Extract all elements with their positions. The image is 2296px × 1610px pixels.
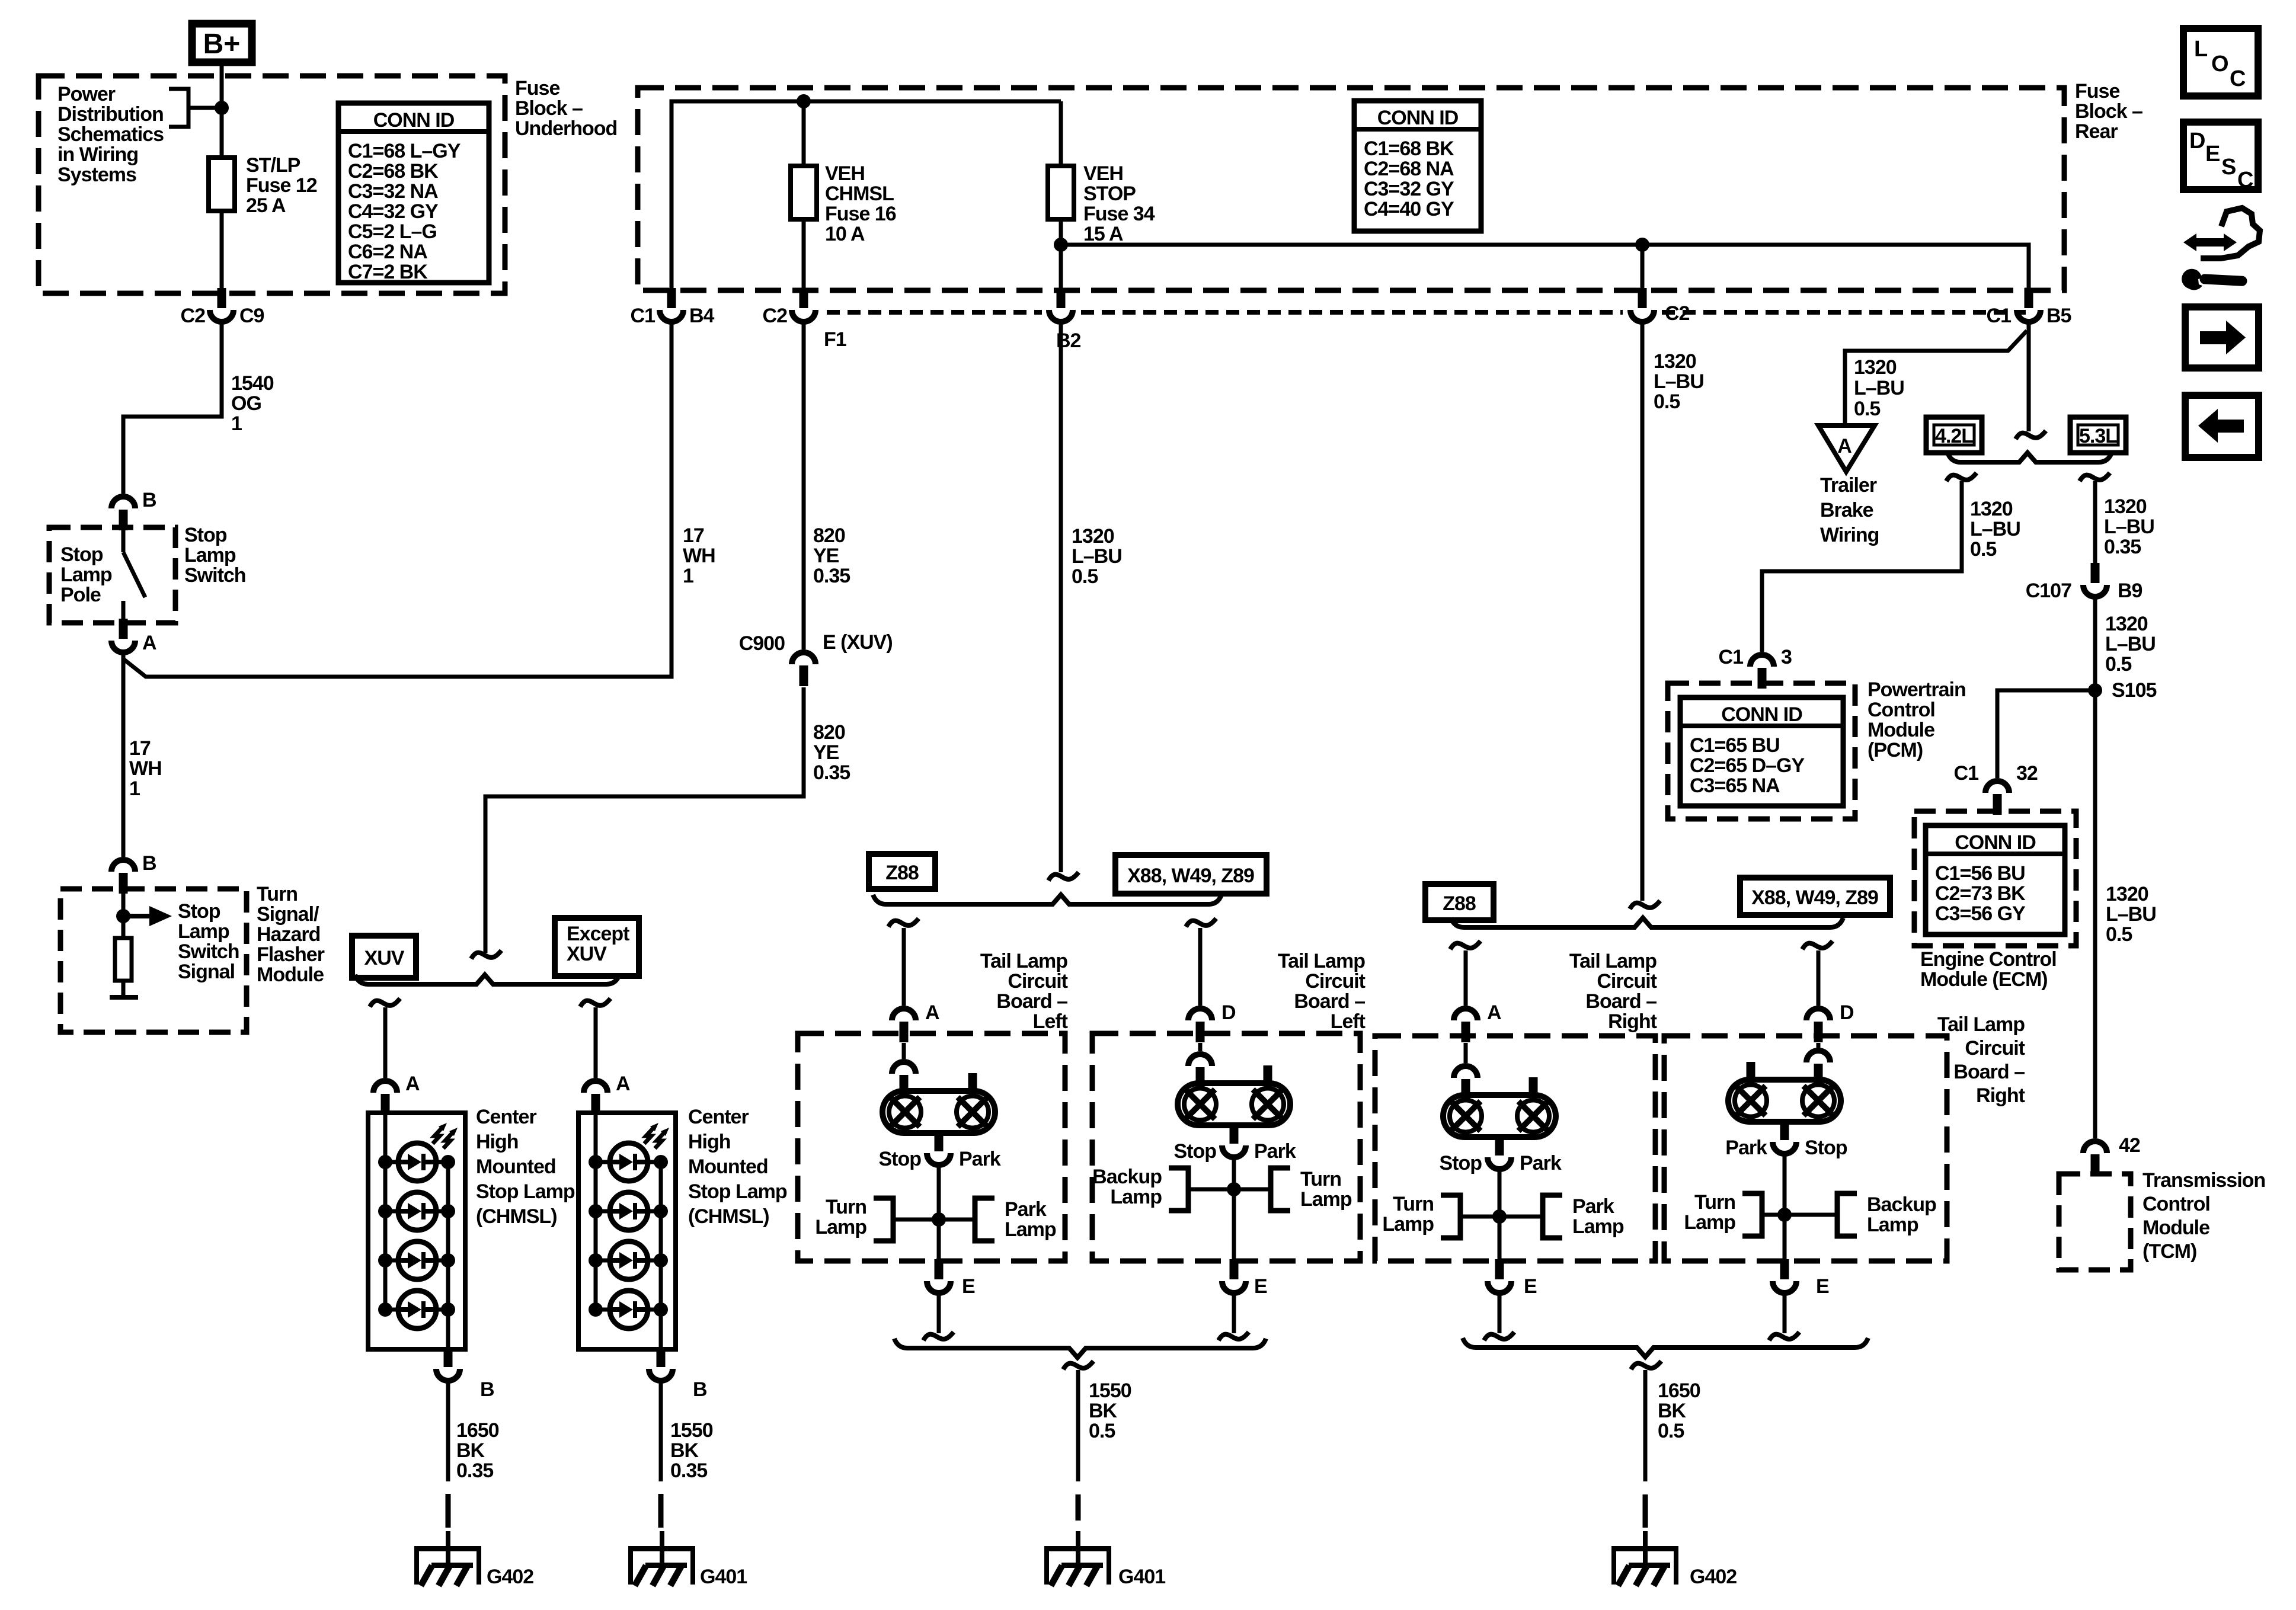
LED CHMSL except-XUV LED 2 bbox=[610, 1192, 648, 1230]
svg-text:C1: C1 bbox=[631, 305, 655, 327]
svg-text:C1=68 L–GY: C1=68 L–GY bbox=[348, 140, 461, 162]
svg-text:0.5: 0.5 bbox=[1970, 538, 1996, 561]
component box: Tail Lamp Circuit Board - Left (stop/park/turn) bbox=[798, 1033, 1065, 1261]
junction STOP fuse output node bbox=[1054, 238, 1068, 252]
connector tail lamp 2 stop/park pin bbox=[1230, 1124, 1239, 1144]
bulb tail lamp 2 unfed pin bbox=[1264, 1065, 1272, 1083]
option box: X88, W49, Z89 (right) bbox=[1740, 878, 1890, 915]
junction CHMSL XUV right bus node 4 bbox=[441, 1302, 455, 1317]
svg-text:Stop Lamp: Stop Lamp bbox=[688, 1180, 787, 1203]
bulb tail lamp 2 body bbox=[1178, 1083, 1290, 1125]
component box: Turn Signal/Hazard Flasher Module bbox=[60, 889, 247, 1032]
bulb tail lamp 2 left filament circle bbox=[1184, 1089, 1216, 1121]
connector C2/F1 pin bbox=[800, 288, 808, 308]
svg-text:A: A bbox=[925, 1001, 939, 1024]
connector ECM C1 pin 32 dome bbox=[1985, 781, 2009, 793]
svg-text:Stop: Stop bbox=[60, 543, 103, 566]
wire stop lamp feed bus to B5 bbox=[1061, 245, 2029, 288]
svg-text:O: O bbox=[2211, 52, 2229, 76]
bulb tail lamp 3 unfed pin bbox=[1529, 1077, 1538, 1095]
CONN ID ECM table bbox=[1926, 825, 2065, 934]
junction splice S105 bbox=[2088, 683, 2102, 697]
svg-text:Stop: Stop bbox=[184, 524, 227, 546]
svg-text:XUV: XUV bbox=[364, 947, 405, 969]
connector tail lamp 2 D pin bbox=[1196, 1022, 1205, 1042]
connector CHMSL XUV A pin bbox=[381, 1094, 390, 1115]
junction C2 rear tap bbox=[1635, 238, 1649, 252]
wire CHMSL except-XUV right bus bbox=[659, 1162, 663, 1349]
component box: Tail Lamp Circuit Board - Right (stop/park/turn) bbox=[1375, 1036, 1655, 1261]
svg-text:(CHMSL): (CHMSL) bbox=[688, 1205, 769, 1228]
wire-option squiggle tail lamp 2 ground option bbox=[1219, 1332, 1249, 1340]
svg-text:Module: Module bbox=[2142, 1217, 2209, 1239]
LED CHMSL except-XUV LED 4 bbox=[610, 1291, 648, 1329]
connector CHMSL except-XUV B pin bbox=[657, 1347, 666, 1367]
svg-text:C1=56 BU: C1=56 BU bbox=[1935, 862, 2025, 885]
wire-option squiggle X88 branch (right) bbox=[1802, 941, 1833, 949]
wire CHMSL XUV LED 1 cathode lead bbox=[436, 1160, 448, 1164]
wire-option squiggle left ground merge out bbox=[1063, 1361, 1093, 1369]
svg-text:A: A bbox=[1837, 435, 1851, 457]
svg-text:Switch: Switch bbox=[178, 940, 239, 963]
connector CHMSL except-XUV A dome bbox=[584, 1081, 607, 1093]
connector C2/F1 cup bbox=[792, 310, 816, 322]
connector tail lamp 2 D dome bbox=[1188, 1009, 1212, 1020]
svg-text:CHMSL: CHMSL bbox=[825, 183, 894, 205]
svg-text:42: 42 bbox=[2119, 1134, 2140, 1157]
svg-text:B: B bbox=[480, 1378, 494, 1401]
svg-text:Switch: Switch bbox=[184, 564, 246, 587]
lamp-feed bracket tail lamp 1 right (Park Lamp) bbox=[975, 1198, 994, 1241]
wire-option squiggle tail lamp 4 ground option bbox=[1769, 1332, 1799, 1340]
svg-text:Backup: Backup bbox=[1867, 1193, 1936, 1216]
connector tail lamp 3 E cup bbox=[1488, 1281, 1511, 1293]
wire bus to VEH STOP fuse bbox=[1059, 101, 1063, 292]
svg-text:Brake: Brake bbox=[1820, 499, 1873, 521]
CONN ID underhood table bbox=[338, 103, 489, 283]
connector tail lamp 4 stop/park pin bbox=[1780, 1120, 1789, 1140]
wire tail lamp 3 cross lead bbox=[1460, 1215, 1543, 1219]
svg-text:E (XUV): E (XUV) bbox=[823, 631, 893, 654]
svg-text:B5: B5 bbox=[2046, 305, 2071, 327]
LED CHMSL XUV LED 3 bbox=[398, 1241, 436, 1279]
brace right board ground merge bbox=[1463, 1338, 1868, 1357]
wire dash (right ground harness) bbox=[1643, 1494, 1648, 1528]
svg-text:C: C bbox=[2230, 66, 2246, 91]
wire CHMSL except-XUV left bus bbox=[594, 1103, 598, 1310]
svg-text:E: E bbox=[1254, 1275, 1267, 1298]
connector C900 dome bbox=[792, 652, 816, 664]
svg-text:Fuse 12: Fuse 12 bbox=[246, 174, 317, 197]
LED CHMSL XUV LED 2 bbox=[398, 1192, 436, 1230]
junction CHMSL except-XUV right bus node 1 bbox=[654, 1155, 668, 1169]
wire C900 to CHMSL split bbox=[485, 687, 804, 953]
svg-text:0.5: 0.5 bbox=[2106, 923, 2132, 946]
connector tail lamp 3 stop/park pin bbox=[1495, 1135, 1504, 1156]
svg-text:1650: 1650 bbox=[1658, 1379, 1700, 1402]
bulb tail lamp 4 unfed pin bbox=[1747, 1062, 1755, 1080]
svg-text:C3=65 NA: C3=65 NA bbox=[1690, 774, 1780, 797]
svg-text:C4=32 GY: C4=32 GY bbox=[348, 200, 439, 223]
ground G401 (CHMSL except XUV) bbox=[628, 1531, 695, 1586]
svg-text:Pole: Pole bbox=[60, 584, 101, 606]
svg-text:Transmission: Transmission bbox=[2142, 1169, 2265, 1192]
icon: back arrow box bbox=[2185, 395, 2259, 457]
svg-text:32: 32 bbox=[2016, 762, 2038, 785]
connector tail lamp 4 E cup bbox=[1773, 1281, 1796, 1293]
connector tail lamp 2 E cup bbox=[1222, 1281, 1246, 1293]
ground (flasher internal) bbox=[110, 995, 138, 1012]
option box: 5.3L bbox=[2070, 417, 2126, 453]
wire C2 to right tail lamp split bbox=[1641, 323, 1645, 901]
connector tail lamp 1 A pin bbox=[900, 1022, 909, 1042]
svg-text:820: 820 bbox=[813, 524, 845, 547]
wire bus to VEH CHMSL fuse bbox=[802, 101, 806, 292]
junction tail lamp 1 common node bbox=[932, 1212, 946, 1227]
svg-text:C3=56 GY: C3=56 GY bbox=[1935, 902, 2026, 925]
svg-text:25 A: 25 A bbox=[246, 194, 286, 217]
wire-option squiggle Except XUV branch bbox=[580, 998, 610, 1007]
junction CHMSL except-XUV left bus node 4 bbox=[589, 1302, 603, 1317]
svg-text:0.35: 0.35 bbox=[813, 761, 850, 784]
svg-text:B9: B9 bbox=[2118, 580, 2142, 602]
junction CHMSL XUV right bus node 3 bbox=[441, 1253, 455, 1267]
wire tail lamp 4 cross lead bbox=[1762, 1213, 1837, 1217]
wire tail lamp 3 feed inside board bbox=[1464, 1043, 1468, 1063]
wire CHMSL XUV LED 3 cathode lead bbox=[436, 1259, 448, 1263]
connector tail lamp 2 stop/park cup bbox=[1222, 1145, 1246, 1157]
svg-text:Control: Control bbox=[1868, 699, 1935, 721]
connector tail lamp 1 socket pin bbox=[900, 1075, 909, 1096]
wire Z88 branch to lamp A (left) bbox=[902, 928, 906, 1006]
wire CHMSL except-XUV LED 2 cathode lead bbox=[648, 1209, 661, 1214]
svg-text:1: 1 bbox=[683, 565, 693, 587]
svg-text:Stop: Stop bbox=[1439, 1152, 1482, 1174]
wire CHMSL except-XUV ground lead bbox=[659, 1382, 663, 1481]
connector C1/B4 pin bbox=[667, 288, 676, 308]
svg-text:WH: WH bbox=[683, 545, 715, 567]
svg-text:Block –: Block – bbox=[2075, 100, 2142, 123]
wire stop bus to C2 rear connector bbox=[1641, 245, 1645, 292]
component box: Tail Lamp Circuit Board - Right (backup/turn) bbox=[1664, 1036, 1947, 1261]
svg-text:Lamp: Lamp bbox=[184, 544, 236, 566]
wire B5 to engine option split bbox=[2027, 323, 2031, 431]
svg-text:B: B bbox=[142, 852, 156, 875]
svg-text:(PCM): (PCM) bbox=[1868, 739, 1923, 761]
svg-text:C3=32 GY: C3=32 GY bbox=[1364, 178, 1454, 200]
connector CHMSL XUV B cup bbox=[436, 1369, 460, 1381]
wire right boards ground wire bbox=[1643, 1370, 1648, 1481]
svg-text:Engine Control: Engine Control bbox=[1920, 948, 2057, 971]
svg-text:Board –: Board – bbox=[1585, 990, 1657, 1013]
svg-text:B4: B4 bbox=[689, 305, 715, 327]
wire dash (left ground harness) bbox=[1076, 1494, 1081, 1521]
bulb tail lamp 1 body bbox=[882, 1091, 995, 1133]
lamp-feed bracket tail lamp 2 left (Backup Lamp) bbox=[1169, 1168, 1188, 1211]
wire CHMSL except-XUV LED 3 cathode lead bbox=[648, 1259, 661, 1263]
svg-text:C2=68 NA: C2=68 NA bbox=[1364, 158, 1454, 180]
svg-text:XUV: XUV bbox=[567, 943, 607, 965]
connector C1/B5 cup bbox=[2017, 310, 2041, 322]
svg-text:E: E bbox=[1524, 1275, 1537, 1298]
wire stop lamp switch A to flasher module B bbox=[121, 654, 126, 857]
svg-text:Board –: Board – bbox=[1953, 1061, 2025, 1083]
svg-text:CONN ID: CONN ID bbox=[1721, 703, 1802, 726]
lamp-feed bracket tail lamp 4 left (Turn Lamp) bbox=[1742, 1193, 1762, 1236]
brace CHMSL option split bbox=[355, 975, 619, 984]
connector tail lamp 2 socket pin bbox=[1196, 1067, 1205, 1088]
svg-text:Turn: Turn bbox=[1393, 1193, 1434, 1215]
svg-text:(TCM): (TCM) bbox=[2142, 1240, 2196, 1263]
lamp-feed bracket tail lamp 3 right (Park Lamp) bbox=[1543, 1195, 1562, 1238]
svg-text:C3=32 NA: C3=32 NA bbox=[348, 180, 438, 203]
svg-text:Trailer: Trailer bbox=[1820, 474, 1877, 497]
wire CHMSL except-XUV LED 4 cathode lead bbox=[648, 1308, 661, 1312]
svg-text:Center: Center bbox=[688, 1106, 749, 1128]
svg-text:0.5: 0.5 bbox=[1854, 398, 1880, 420]
connector C2/C9 cup bbox=[210, 310, 234, 322]
svg-text:L: L bbox=[2194, 37, 2208, 62]
svg-text:4.2L: 4.2L bbox=[1935, 425, 1973, 447]
svg-text:A: A bbox=[616, 1073, 630, 1095]
svg-text:Turn: Turn bbox=[257, 883, 298, 905]
svg-text:OG: OG bbox=[231, 392, 261, 415]
connector tail lamp 1 A dome bbox=[892, 1009, 916, 1020]
option box: 4.2L bbox=[1926, 417, 1982, 453]
component box: CHMSL except-XUV bbox=[578, 1113, 676, 1349]
svg-text:1320: 1320 bbox=[2106, 883, 2148, 905]
svg-text:1320: 1320 bbox=[1854, 356, 1897, 379]
wire 5.3L branch to C107 bbox=[2093, 481, 2097, 563]
wire tail lamp 1 ground lead bbox=[937, 1294, 941, 1333]
junction CHMSL XUV right bus node 1 bbox=[441, 1155, 455, 1169]
resistor (flasher internal) bbox=[115, 938, 132, 981]
wire tail lamp 2 ground lead bbox=[1232, 1294, 1236, 1333]
connector CHMSL except-XUV B cup bbox=[649, 1369, 673, 1381]
svg-text:Lamp: Lamp bbox=[1382, 1213, 1434, 1235]
connector tail lamp 4 stop/park cup bbox=[1773, 1142, 1796, 1154]
option box: Except XUV bbox=[555, 918, 639, 976]
bulb tail lamp 2 right filament circle bbox=[1252, 1089, 1284, 1121]
connector C107/B9 cup bbox=[2083, 585, 2107, 597]
connector tail lamp 3 A pin bbox=[1462, 1022, 1470, 1042]
svg-text:Park: Park bbox=[1725, 1137, 1767, 1159]
svg-text:Distribution: Distribution bbox=[57, 103, 164, 126]
svg-text:Tail Lamp: Tail Lamp bbox=[980, 950, 1067, 972]
svg-text:A: A bbox=[405, 1073, 420, 1095]
connector tail lamp 1 socket dome bbox=[892, 1062, 916, 1074]
component box: Fuse Block - Rear bbox=[638, 88, 2064, 290]
svg-text:Fuse: Fuse bbox=[515, 77, 559, 100]
svg-text:(CHMSL): (CHMSL) bbox=[476, 1205, 557, 1228]
svg-text:Except: Except bbox=[567, 923, 629, 945]
svg-text:Left: Left bbox=[1331, 1010, 1366, 1033]
connector tail lamp 4 D dome bbox=[1806, 1009, 1830, 1020]
junction CHMSL fuse tap bbox=[797, 94, 811, 108]
svg-text:BK: BK bbox=[456, 1439, 485, 1462]
wire-option squiggle right split feed end bbox=[1630, 901, 1660, 909]
brace left board ground merge bbox=[894, 1339, 1266, 1358]
svg-text:1550: 1550 bbox=[1089, 1379, 1131, 1402]
wire B+ to ST/LP fuse bbox=[220, 66, 224, 292]
junction CHMSL except-XUV right bus node 2 bbox=[654, 1204, 668, 1218]
connector tail lamp 3 socket pin bbox=[1462, 1079, 1470, 1100]
wire F1 to C900 bbox=[802, 323, 806, 649]
connector CHMSL XUV A dome bbox=[373, 1081, 397, 1093]
svg-text:G401: G401 bbox=[1118, 1566, 1165, 1588]
svg-text:820: 820 bbox=[813, 721, 845, 744]
svg-text:Z88: Z88 bbox=[1443, 892, 1476, 915]
svg-text:Turn: Turn bbox=[1300, 1168, 1341, 1190]
svg-text:1: 1 bbox=[231, 412, 242, 435]
connector tail lamp 1 E cup bbox=[927, 1281, 951, 1293]
connector C1/B5 pin bbox=[2025, 288, 2033, 308]
svg-text:Turn: Turn bbox=[1694, 1191, 1735, 1214]
connector tail lamp 1 E pin bbox=[935, 1259, 944, 1279]
wire 4.2L branch to PCM C1-3 bbox=[1762, 481, 1962, 652]
wire B2 to left tail lamp split bbox=[1059, 323, 1063, 872]
svg-text:Rear: Rear bbox=[2075, 120, 2118, 143]
off-page triangle A: Trailer Brake Wiring bbox=[1818, 425, 1875, 472]
bulb tail lamp 3 body bbox=[1443, 1095, 1556, 1137]
connector B2 pin bbox=[1057, 288, 1066, 308]
svg-text:Board –: Board – bbox=[1294, 990, 1365, 1013]
bracket: power distribution reference bbox=[169, 89, 222, 127]
svg-text:5.3L: 5.3L bbox=[2079, 425, 2117, 447]
svg-text:C9: C9 bbox=[239, 305, 264, 327]
component box: Powertrain Control Module (PCM) bbox=[1668, 683, 1855, 819]
svg-text:STOP: STOP bbox=[1083, 183, 1136, 205]
svg-text:17: 17 bbox=[129, 737, 151, 760]
svg-text:C900: C900 bbox=[739, 632, 785, 655]
wire CHMSL XUV LED 2 anode lead bbox=[385, 1209, 398, 1214]
wire-option squiggle 5.3L branch bbox=[2080, 473, 2110, 481]
svg-text:Tail Lamp: Tail Lamp bbox=[1278, 950, 1365, 972]
svg-text:YE: YE bbox=[813, 545, 839, 567]
svg-text:C1: C1 bbox=[1954, 762, 1979, 785]
connector TCM pin 42 pin bbox=[2091, 1154, 2100, 1175]
svg-text:G402: G402 bbox=[487, 1566, 533, 1588]
svg-text:Flasher: Flasher bbox=[257, 943, 325, 966]
component box: Transmission Control Module (TCM) bbox=[2059, 1174, 2131, 1270]
fuse VEH STOP Fuse 34 body bbox=[1048, 166, 1074, 219]
svg-text:Park: Park bbox=[959, 1148, 1001, 1170]
svg-text:0.35: 0.35 bbox=[813, 565, 850, 587]
connector C2/C9 pin bbox=[218, 288, 226, 308]
bulb tail lamp 1 left filament circle bbox=[889, 1096, 921, 1128]
svg-text:0.5: 0.5 bbox=[1658, 1420, 1684, 1442]
ground G402 (right boards) bbox=[1611, 1531, 1678, 1586]
svg-text:Stop: Stop bbox=[1173, 1140, 1216, 1163]
wire dash (harness continues) bbox=[446, 1494, 451, 1528]
svg-text:Tail Lamp: Tail Lamp bbox=[1937, 1013, 2025, 1036]
svg-text:CONN ID: CONN ID bbox=[1377, 107, 1459, 129]
svg-text:Lamp: Lamp bbox=[1572, 1215, 1624, 1238]
lamp-feed bracket tail lamp 2 right (Turn Lamp) bbox=[1271, 1168, 1290, 1211]
svg-text:1320: 1320 bbox=[1970, 498, 2013, 520]
fuse VEH CHMSL Fuse 16 body bbox=[791, 166, 817, 219]
LED CHMSL except-XUV LED 3 bbox=[610, 1241, 648, 1279]
svg-text:E: E bbox=[2205, 142, 2220, 167]
junction B+ tap bbox=[215, 101, 229, 115]
svg-text:C2=65 D–GY: C2=65 D–GY bbox=[1690, 754, 1805, 777]
svg-text:Circuit: Circuit bbox=[1965, 1037, 2025, 1060]
wire Z88 branch to lamp A (right) bbox=[1464, 950, 1468, 1006]
junction CHMSL XUV left bus node 3 bbox=[378, 1253, 392, 1267]
wire-option squiggle Z88 branch (left) bbox=[888, 918, 919, 927]
wire-option squiggle Z88 branch (right) bbox=[1450, 941, 1480, 949]
svg-text:Lamp: Lamp bbox=[1110, 1186, 1162, 1208]
svg-text:C4=40 GY: C4=40 GY bbox=[1364, 198, 1454, 220]
connector ECM C1 pin 32 pin bbox=[1993, 794, 2002, 815]
LED CHMSL XUV LED 4 bbox=[398, 1291, 436, 1329]
svg-text:C2=73 BK: C2=73 BK bbox=[1935, 882, 2026, 905]
svg-text:CONN ID: CONN ID bbox=[373, 109, 455, 132]
wire S105 to ECM C1-32 bbox=[1997, 690, 2095, 778]
wire X88 branch to lamp D (right) bbox=[1817, 950, 1821, 1006]
wire tail lamp 4 feed inside board bbox=[1817, 1043, 1821, 1048]
junction tail lamp 2 common node bbox=[1227, 1182, 1241, 1196]
wire CHMSL XUV LED 1 anode lead bbox=[385, 1160, 398, 1164]
junction tail lamp 4 common node bbox=[1777, 1208, 1792, 1222]
connector stop lamp switch B pin bbox=[119, 510, 128, 530]
bulb tail lamp 4 body bbox=[1728, 1080, 1841, 1122]
svg-text:Backup: Backup bbox=[1092, 1166, 1162, 1188]
svg-text:A: A bbox=[142, 632, 156, 654]
svg-text:Hazard: Hazard bbox=[257, 923, 320, 946]
svg-text:E: E bbox=[1816, 1275, 1829, 1298]
svg-text:10 A: 10 A bbox=[825, 223, 865, 245]
wire-option squiggle left split feed end bbox=[1048, 872, 1079, 881]
svg-text:Mounted: Mounted bbox=[688, 1156, 768, 1178]
svg-text:17: 17 bbox=[683, 524, 704, 547]
svg-text:Block –: Block – bbox=[515, 97, 583, 120]
wire CHMSL XUV LED 2 cathode lead bbox=[436, 1209, 448, 1214]
svg-text:Circuit: Circuit bbox=[1008, 970, 1067, 993]
svg-text:1: 1 bbox=[129, 777, 140, 800]
svg-text:Schematics: Schematics bbox=[57, 123, 164, 146]
CONN ID PCM table bbox=[1680, 697, 1843, 806]
wire CHMSL except-XUV LED 4 anode lead bbox=[596, 1308, 610, 1312]
wire switch top pin bbox=[121, 530, 126, 552]
svg-text:B: B bbox=[693, 1378, 707, 1401]
wire to CHMSL (except XUV) A bbox=[594, 1007, 598, 1078]
connector tail lamp 1 stop/park pin bbox=[935, 1131, 944, 1151]
svg-text:F1: F1 bbox=[824, 328, 846, 351]
svg-text:1320: 1320 bbox=[1654, 350, 1696, 373]
connector TCM pin 42 dome bbox=[2083, 1141, 2107, 1153]
brace left board option split bbox=[873, 895, 1221, 904]
svg-text:Stop Lamp: Stop Lamp bbox=[476, 1180, 575, 1203]
connector tail lamp 3 E pin bbox=[1495, 1259, 1504, 1279]
svg-text:G402: G402 bbox=[1690, 1566, 1737, 1588]
wire tail lamp 4 common lead bbox=[1783, 1154, 1787, 1260]
svg-text:Center: Center bbox=[476, 1106, 536, 1128]
svg-text:Board –: Board – bbox=[996, 990, 1067, 1013]
wire CHMSL XUV LED 4 cathode lead bbox=[436, 1308, 448, 1312]
brace right board option split bbox=[1451, 918, 1843, 927]
connector flasher module B pin bbox=[119, 873, 128, 894]
svg-text:Lamp: Lamp bbox=[1684, 1211, 1735, 1234]
svg-text:Right: Right bbox=[1608, 1010, 1657, 1033]
svg-text:G401: G401 bbox=[700, 1566, 747, 1588]
icon: LOC box bbox=[2183, 28, 2258, 96]
svg-text:Module (ECM): Module (ECM) bbox=[1920, 968, 2048, 991]
svg-text:C5=2 L–G: C5=2 L–G bbox=[348, 220, 437, 243]
svg-text:Turn: Turn bbox=[826, 1196, 866, 1218]
connector PCM C1 pin 3 dome bbox=[1750, 655, 1774, 667]
svg-text:Fuse 34: Fuse 34 bbox=[1083, 203, 1155, 225]
